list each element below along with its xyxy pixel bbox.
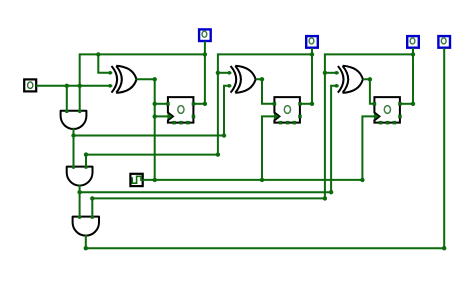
wire clock line xyxy=(144,179,363,181)
wire line A AND1 output to XOR2 input B xyxy=(74,86,232,136)
wire pin Q2 stub xyxy=(412,48,414,104)
flip-flop FF1 xyxy=(168,97,194,123)
wire AND1 output down to AND2 input A xyxy=(73,128,75,168)
wire jog to XOR1 input A xyxy=(98,53,112,72)
flip-flop FF1 pin pads xyxy=(166,102,195,124)
gate input pin dots xyxy=(65,71,338,219)
output pin Q3 xyxy=(438,36,450,48)
wire pin Q1 stub xyxy=(311,48,313,104)
output pin Q1 xyxy=(306,36,318,48)
wire line B drop to AND2 input B xyxy=(85,155,87,168)
wire rail1 drop to AND1 input B xyxy=(79,53,81,112)
xor gate U1 xyxy=(112,66,137,93)
wire FF1 output to pin Q0 xyxy=(193,103,205,105)
wire FF2 output to pin Q1 xyxy=(300,103,312,105)
flip-flop FF3 xyxy=(374,97,400,123)
wire XOR1 output to FF1 and clock line xyxy=(137,79,155,180)
output pin Q0 xyxy=(199,29,211,41)
wire FF3 output to pin Q2 xyxy=(400,103,413,105)
wire top rail segment 2 xyxy=(218,53,312,55)
wire line B xyxy=(86,154,218,156)
and gate U4 xyxy=(61,111,87,129)
wire stub to XOR3 input A xyxy=(325,72,339,74)
xor gate U2 xyxy=(231,66,256,93)
output pin Q2 xyxy=(407,36,419,48)
wire H3 drop to AND3 input B xyxy=(91,198,93,218)
wire line H3 to AND3 corner xyxy=(92,197,325,199)
wire AND2 output down to AND3 input A xyxy=(79,184,81,218)
wire FF2 clock riser xyxy=(262,116,274,179)
wire XOR3 output to FF3 input D xyxy=(363,79,375,104)
wire drop to AND1 input A xyxy=(66,86,68,112)
wire rail3 drop to line H3 xyxy=(324,53,326,198)
wire top rail segment 3 xyxy=(325,53,413,55)
wire to FF1 clock input xyxy=(155,115,168,117)
flip-flop FF2 pin pads xyxy=(273,102,302,124)
wire XOR2 output to FF2 input D xyxy=(256,79,276,104)
flip-flop FF3 pin pads xyxy=(373,102,402,124)
wire top rail segment 1 xyxy=(80,53,205,55)
wire FF3 clock riser xyxy=(362,116,374,179)
and gate U6 xyxy=(73,217,99,236)
xor gate U3 xyxy=(338,66,363,93)
wire AND3 output to pin Q3 xyxy=(86,48,444,248)
wire stub to XOR2 input A xyxy=(218,72,232,74)
wire input pin to XOR1 input B xyxy=(36,85,112,87)
and gate U5 xyxy=(67,167,93,186)
flip-flop FF2 xyxy=(274,97,300,123)
wire line H2 AND2 output to XOR3 input B xyxy=(80,86,339,192)
clock CLK xyxy=(130,174,143,186)
wire rail2 drop to line B xyxy=(217,53,219,154)
input pin IN xyxy=(24,79,36,91)
wire pin Q0 stub xyxy=(204,41,206,103)
wire to FF1 input D xyxy=(155,103,169,105)
